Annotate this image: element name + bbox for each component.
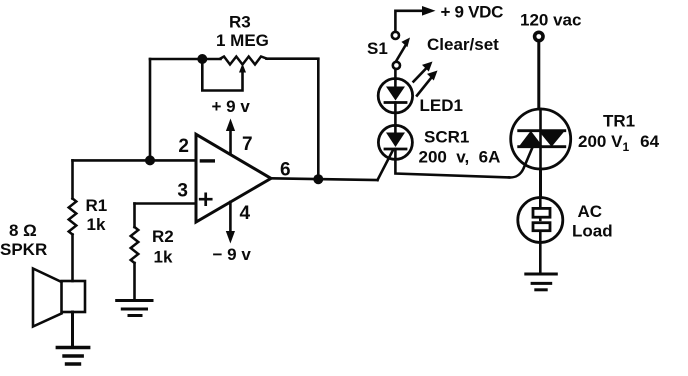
svg-text:AC: AC bbox=[578, 202, 603, 221]
svg-text:120 vac: 120 vac bbox=[520, 11, 581, 30]
R3 wiper arrowhead bbox=[239, 64, 246, 73]
LED1 diode triangle bbox=[386, 87, 405, 101]
LED1 circle bbox=[378, 79, 412, 113]
speaker horn bbox=[33, 269, 62, 327]
svg-text:SCR1: SCR1 bbox=[424, 128, 469, 147]
wire TR1 to AC load bbox=[539, 169, 542, 198]
AC load element bottom bbox=[533, 223, 550, 231]
svg-text:8 Ω: 8 Ω bbox=[9, 221, 37, 240]
-9v arrowhead bbox=[226, 231, 235, 244]
switch S1 top contact bbox=[392, 32, 399, 39]
+9v arrowhead bbox=[226, 119, 235, 132]
LED1 cathode wire inside bbox=[394, 103, 397, 112]
SCR1 anode wire inside bbox=[394, 125, 397, 132]
pin 4 supply wire -9v bbox=[229, 202, 232, 235]
AC load circle bbox=[518, 198, 563, 243]
terminal 120 vac bbox=[535, 32, 543, 40]
wire S1 to LED1 bbox=[394, 69, 397, 79]
wire S1 to +9VDC bbox=[395, 11, 425, 32]
svg-text:+ 9 VDC: + 9 VDC bbox=[441, 3, 504, 22]
wire R1 top vertical bbox=[71, 160, 74, 198]
wire pin3 input horizontal bbox=[135, 202, 197, 205]
node junction R3 left bbox=[197, 54, 207, 64]
svg-text:1 MEG: 1 MEG bbox=[216, 31, 269, 50]
wire R1 bottom to speaker bbox=[71, 235, 74, 282]
op-amp U1 triangle bbox=[196, 134, 271, 222]
op-amp plus sign bbox=[200, 194, 211, 205]
svg-text:Load: Load bbox=[572, 222, 613, 241]
triac TR1 circle bbox=[511, 109, 571, 169]
wire R2 top vertical bbox=[133, 204, 136, 228]
switch S1 bottom contact bbox=[393, 62, 400, 69]
svg-text:1k: 1k bbox=[87, 215, 106, 234]
wire TR1 gate diagonal bbox=[509, 149, 532, 178]
svg-text:S1: S1 bbox=[367, 39, 388, 58]
AC load element top bbox=[533, 208, 550, 217]
svg-text:4: 4 bbox=[240, 203, 251, 224]
svg-text:1k: 1k bbox=[154, 248, 173, 267]
+9VDC arrowhead bbox=[422, 6, 436, 16]
svg-text:200 v, 6A: 200 v, 6A bbox=[419, 148, 501, 167]
SCR1 cathode bar bbox=[385, 148, 406, 151]
resistor R1 bbox=[69, 199, 77, 235]
ground R2 bbox=[117, 301, 152, 316]
svg-text:− 9 v: − 9 v bbox=[213, 245, 252, 264]
speaker SPKR body bbox=[62, 281, 86, 312]
wire LED1 to SCR1 bbox=[394, 113, 397, 126]
resistor R2 bbox=[131, 227, 139, 263]
node junction pin2 bbox=[145, 155, 155, 165]
AC load wire through bbox=[539, 198, 542, 243]
wire pin2 input horizontal bbox=[73, 159, 197, 162]
svg-text:+ 9 v: + 9 v bbox=[212, 97, 251, 116]
pin 7 supply wire +9v bbox=[229, 127, 232, 154]
op-amp minus sign bbox=[201, 159, 213, 162]
wire R3 left vertical bbox=[149, 59, 152, 160]
svg-text:6: 6 bbox=[280, 160, 291, 181]
LED1 cathode bar bbox=[385, 101, 406, 104]
ground speaker bbox=[57, 348, 88, 365]
LED1 light arrow 1 bbox=[414, 68, 428, 82]
svg-text:7: 7 bbox=[242, 134, 253, 155]
LED1 anode wire inside bbox=[394, 79, 397, 87]
svg-text:3: 3 bbox=[177, 181, 188, 202]
wire speaker to ground bbox=[71, 312, 74, 347]
TR1 right triangle bbox=[539, 131, 565, 147]
wire right vertical to output bbox=[317, 59, 320, 179]
TR1 top bar bbox=[519, 129, 565, 132]
svg-text:LED1: LED1 bbox=[420, 96, 463, 115]
TR1 bottom bar bbox=[519, 145, 565, 148]
svg-text:200 V164: 200 V164 bbox=[578, 132, 660, 154]
wire R2 bottom bbox=[133, 263, 136, 300]
node junction output bbox=[313, 174, 323, 184]
SCR1 cathode wire bbox=[395, 149, 509, 177]
resistor R3 bbox=[221, 57, 267, 65]
wire R3 top left horizontal bbox=[150, 58, 221, 61]
svg-text:Clear/set: Clear/set bbox=[427, 35, 499, 54]
svg-text:R2: R2 bbox=[152, 227, 174, 246]
wire 120vac to TR1 bbox=[537, 41, 540, 109]
wire R3 top right horizontal bbox=[267, 57, 319, 60]
pin 6 output wire bbox=[271, 178, 378, 180]
svg-text:R3: R3 bbox=[229, 13, 251, 32]
SCR1 diode triangle bbox=[386, 133, 405, 148]
wire SCR gate diagonal bbox=[378, 150, 394, 180]
svg-text:R1: R1 bbox=[86, 196, 108, 215]
SCR1 circle bbox=[378, 125, 412, 159]
wire AC load to ground bbox=[539, 243, 542, 275]
svg-text:SPKR: SPKR bbox=[0, 240, 47, 259]
svg-text:2: 2 bbox=[178, 136, 189, 157]
ground AC load bbox=[526, 274, 557, 290]
LED1 light arrow 2 bbox=[417, 78, 432, 96]
svg-text:TR1: TR1 bbox=[603, 112, 635, 131]
wire R3 wiper loop bbox=[202, 59, 242, 91]
switch S1 blade arrow bbox=[397, 45, 407, 61]
TR1 left triangle bbox=[519, 131, 543, 147]
TR1 vertical wire through bbox=[539, 109, 542, 169]
